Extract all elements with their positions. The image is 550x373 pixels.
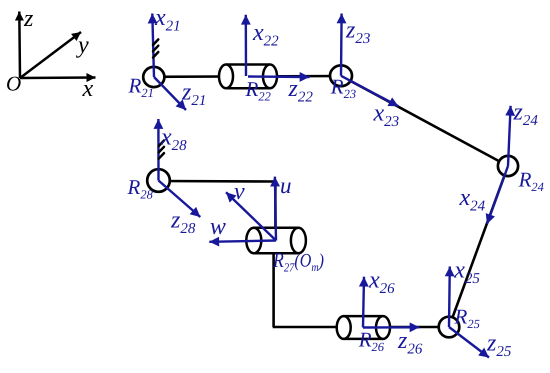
- axis z23: [340, 14, 343, 76]
- axis z21: [154, 77, 186, 110]
- cylinder R27: [246, 228, 306, 254]
- cylinder R22: [219, 65, 277, 89]
- joint circle R24: [498, 156, 518, 176]
- hatch marks on x28: [159, 141, 164, 159]
- global frame z axis: [18, 12, 21, 79]
- svg-text:y: y: [76, 33, 89, 59]
- axis x26: [363, 277, 364, 328]
- axis x22: [245, 15, 248, 76]
- wire link R21 to R23: [154, 75, 341, 78]
- axis z26: [363, 326, 420, 329]
- svg-text:v: v: [234, 179, 245, 205]
- axis u: [275, 177, 276, 241]
- svg-text:x: x: [82, 76, 94, 102]
- wire link R25 to corner: [273, 326, 449, 329]
- svg-text:O: O: [6, 72, 21, 96]
- axis z22: [248, 75, 310, 78]
- svg-text:u: u: [280, 173, 292, 198]
- svg-text:w: w: [210, 214, 226, 240]
- wire vertical link through R27: [272, 240, 275, 327]
- axis x28: [157, 119, 160, 181]
- joint circle R28: [147, 169, 170, 192]
- axis z25: [449, 327, 489, 358]
- wire link R24 to R25: [449, 166, 508, 327]
- axis x24: [487, 166, 508, 224]
- axis z24: [508, 106, 511, 166]
- global frame y axis: [20, 32, 81, 78]
- svg-text:z: z: [23, 6, 34, 32]
- wire link R23 to R24: [341, 76, 508, 166]
- cylinder R26: [337, 316, 390, 339]
- hatch marks on x21: [153, 39, 158, 57]
- axis w: [209, 241, 276, 242]
- axis v: [226, 192, 276, 240]
- joint circle R21: [143, 67, 164, 87]
- axis x25: [448, 267, 451, 328]
- joint circle R23: [330, 65, 352, 86]
- axis x23: [341, 76, 399, 107]
- global frame x axis: [20, 76, 96, 79]
- wire link corner to R28: [159, 180, 276, 183]
- joint circle R25: [439, 317, 460, 338]
- axis x21: [152, 14, 154, 78]
- axis z28: [159, 181, 201, 218]
